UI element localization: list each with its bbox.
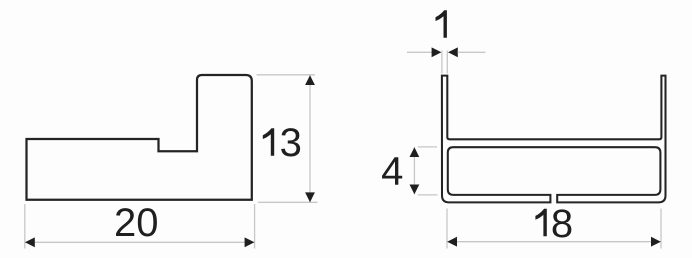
dim 1 extension line right: [446, 51, 448, 74]
svg-text:3: 3: [280, 121, 302, 165]
dim 13 arrow down: [305, 192, 315, 202]
dim 20 line: [25, 241, 254, 243]
svg-text:4: 4: [381, 150, 403, 194]
dim 20 arrow left: [25, 237, 35, 247]
dim 4 arrow up: [410, 147, 420, 157]
dim 20 extension line left: [24, 204, 26, 249]
dim 13 line: [309, 75, 311, 202]
dim 4 arrow down: [410, 185, 420, 195]
dim 20 extension line right: [254, 204, 256, 249]
dim 18 extension line left: [446, 209, 448, 249]
dim 18 extension line right: [660, 209, 662, 249]
dim 1 label: [436, 10, 447, 38]
left profile outline: [27, 75, 252, 200]
dim 13 extension line top: [257, 74, 316, 76]
dim 18 arrow right: [651, 237, 661, 247]
dim 18 arrow left: [447, 237, 457, 247]
dim 1 arrow pointing left: [448, 47, 458, 57]
dim 13 extension line bottom: [258, 201, 318, 203]
dim 1 extension line left: [441, 51, 443, 74]
dim 18 label: [535, 209, 546, 237]
dim 4 extension line bottom: [418, 194, 438, 196]
dim 13 arrow up: [305, 75, 315, 85]
dim 4 line: [413, 147, 415, 194]
right profile outline: [442, 76, 666, 203]
dim 13 label: [263, 128, 274, 156]
dim 18 line: [447, 241, 661, 243]
dim 1 line right segment: [458, 51, 486, 53]
dim 1 arrow pointing right: [432, 47, 442, 57]
dim 4 extension line top: [418, 146, 437, 148]
svg-text:8: 8: [551, 202, 573, 246]
dim 20 arrow right: [245, 237, 255, 247]
svg-text:20: 20: [114, 201, 159, 245]
dim 1 line left segment: [407, 51, 432, 53]
